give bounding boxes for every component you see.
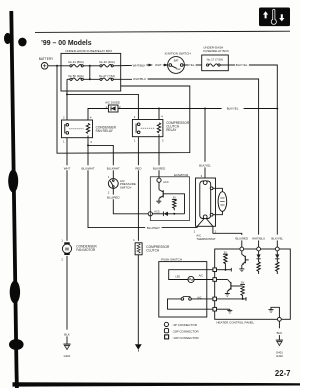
svg-text:WHT/BLU: WHT/BLU — [252, 236, 265, 240]
svg-text:BAT: BAT — [174, 59, 179, 63]
svg-text:: 13P CONNECTOR: : 13P CONNECTOR — [172, 336, 200, 340]
svg-text:BLK: BLK — [277, 331, 283, 335]
A/C diode — [105, 101, 121, 112]
panel interior: LED diode + resistor on WHT/BLU — [257, 251, 261, 274]
svg-text:: 20P CONNECTOR: : 20P CONNECTOR — [172, 329, 200, 333]
wire relay coil pin4 up — [158, 109, 160, 120]
header rule — [35, 31, 290, 32]
svg-text:LED: LED — [175, 275, 180, 278]
svg-text:YEL: YEL — [189, 63, 195, 67]
svg-text:No.42 (40A): No.42 (40A) — [99, 60, 115, 64]
svg-text:A/C: A/C — [199, 273, 203, 277]
wire BLK/YEL from under-dash fuse — [228, 64, 235, 66]
wire WHT/BLK to ignition switch — [113, 64, 132, 66]
wire battery to fuse row1 — [48, 65, 70, 67]
svg-text:’99 – 00 Models: ’99 – 00 Models — [41, 40, 92, 47]
svg-text:BLK/YEL: BLK/YEL — [199, 163, 211, 167]
wire motor to ground — [66, 256, 68, 330]
transistor Q1 ECM — [158, 182, 160, 189]
A/C pressure switch — [108, 170, 136, 194]
ECM/PCM box — [148, 173, 189, 221]
panel interior: switch return mini ground — [217, 309, 233, 313]
svg-text:RELAY: RELAY — [166, 128, 177, 132]
compressor clutch relay — [132, 115, 190, 143]
svg-text:FAN MOTOR: FAN MOTOR — [76, 248, 96, 252]
wire fuse50 to condenser fan relay pin2 — [66, 79, 68, 120]
wire BLU/WHT relay pin3 down — [87, 138, 89, 166]
connector legend — [164, 322, 199, 340]
svg-text:BLU/RED: BLU/RED — [236, 236, 249, 240]
panel interior: 5V pullup R1 — [217, 250, 232, 271]
fuse No.42 (40A) — [99, 60, 115, 67]
svg-text:ACS: ACS — [154, 209, 160, 213]
condenser fan motor — [61, 238, 97, 261]
svg-text:IGNITION SWITCH: IGNITION SWITCH — [165, 52, 191, 56]
panel interior: transistor Q3 — [217, 280, 243, 297]
wire BLK/YEL coil feed line — [118, 108, 222, 110]
binding blob bottom — [9, 339, 24, 350]
wire battery branch down-left loop — [56, 65, 58, 67]
heater control panel — [215, 249, 291, 325]
ground compressor body — [135, 344, 142, 350]
svg-text:: 4P CONNECTOR: : 4P CONNECTOR — [172, 323, 198, 327]
connector arrow — [164, 64, 169, 67]
svg-text:No.41 (80A): No.41 (80A) — [68, 60, 84, 64]
svg-text:CLUTCH: CLUTCH — [146, 248, 160, 252]
svg-text:BLU/WHT: BLU/WHT — [81, 166, 94, 170]
svg-text:BLK/YEL: BLK/YEL — [227, 107, 239, 111]
svg-text:PUSH SWITCH: PUSH SWITCH — [161, 257, 182, 261]
fuse No.41 (80A) — [68, 60, 84, 67]
panel interior: transistor Q2 indicator driver — [239, 251, 248, 272]
push switch A/C contact — [168, 295, 213, 309]
svg-text:BLK/RED: BLK/RED — [153, 166, 165, 170]
svg-text:A/C DIODE: A/C DIODE — [105, 101, 120, 105]
svg-text:UNDER-HOOD FUSE/RELAY BOX: UNDER-HOOD FUSE/RELAY BOX — [65, 49, 112, 53]
svg-text:WHT: WHT — [155, 63, 162, 67]
node dot at thermostat feed — [204, 108, 206, 110]
svg-text:G402: G402 — [276, 354, 283, 358]
push switch bulb circuit — [169, 270, 213, 283]
binding hole blob top pair — [4, 33, 11, 44]
wire YEL — [183, 64, 189, 66]
connector circle panel bottom — [278, 317, 282, 321]
under-hood fuse/relay box — [61, 49, 121, 91]
node junction x66.5 branch — [66, 93, 68, 95]
terminal ACS — [148, 212, 152, 216]
connector arrow — [148, 64, 153, 67]
ground ECM emitter — [156, 200, 161, 202]
wire WHT fan feed — [66, 138, 68, 166]
thermostat feed BLK/YEL — [204, 109, 206, 162]
wire branch to pressure switch — [88, 145, 113, 165]
wire thermostat pin2 to BLU/RED column — [213, 226, 242, 235]
diode ACS — [152, 213, 163, 215]
svg-text:FAN RELAY: FAN RELAY — [96, 129, 114, 133]
wire branch to compressor clutch relay pin2 — [67, 94, 138, 119]
node junction fuse row2 — [89, 78, 91, 80]
fuse No.17 (7.5A) — [207, 64, 209, 66]
legs to pins — [197, 219, 204, 227]
wire RED compressor clutch feed — [137, 137, 139, 166]
battery B+ — [39, 57, 54, 69]
ground G201 — [63, 344, 70, 358]
node junction fuse row1 — [89, 65, 91, 67]
svg-text:BLU/RED: BLU/RED — [107, 195, 120, 199]
svg-text:HEATER CONTROL PANEL: HEATER CONTROL PANEL — [216, 321, 254, 325]
svg-text:WHT/BLK: WHT/BLK — [133, 63, 146, 67]
svg-text:M: M — [65, 246, 69, 251]
wire coil bottom pin3 — [87, 136, 89, 138]
svg-text:ACC: ACC — [163, 180, 169, 184]
wire clutch to body ground — [137, 255, 139, 344]
compressor clutch coil — [133, 238, 170, 255]
terminal ACC — [157, 178, 161, 182]
svg-text:5V: 5V — [241, 280, 244, 284]
heater/thermometer chapter icon — [259, 8, 290, 27]
binding hole blob middle — [8, 170, 18, 193]
svg-text:RED: RED — [135, 166, 141, 170]
svg-text:BLK/YEL: BLK/YEL — [236, 63, 248, 67]
svg-text:BLU/WHT: BLU/WHT — [147, 226, 160, 230]
base wire — [163, 194, 184, 214]
svg-text:No.47 (7.5A): No.47 (7.5A) — [99, 74, 115, 78]
svg-text:A/C: A/C — [197, 295, 201, 299]
wire BLU/WHT to thermostat pin1 — [88, 170, 145, 227]
wire WHT/BLU across page — [113, 78, 132, 80]
svg-text:BLU/WHT: BLU/WHT — [107, 166, 120, 170]
binding hole blob lower — [10, 281, 20, 304]
connector squares panel left edge — [213, 268, 217, 272]
wire + junction row1 — [83, 65, 100, 67]
wire BLK/RED to ECM ACC — [158, 137, 160, 166]
svg-text:WHT: WHT — [64, 166, 71, 170]
sensing element loop + oval — [210, 187, 213, 190]
wire relay coil pin4 up to diode line — [88, 109, 108, 121]
svg-text:SWITCH: SWITCH — [120, 185, 131, 189]
svg-text:IG2: IG2 — [176, 67, 181, 71]
connector circles panel top — [240, 247, 244, 251]
ignition switch — [165, 52, 191, 74]
A/C thermostat — [194, 178, 227, 241]
svg-text:THERMOSTAT: THERMOSTAT — [196, 237, 216, 241]
panel interior: exit hook + mini ground — [269, 307, 280, 317]
svg-text:No.17 (7.5A): No.17 (7.5A) — [207, 58, 223, 62]
ground G401 G402 — [276, 340, 283, 358]
wire BLU/RED pressure sw to ECM ACS — [112, 188, 114, 194]
svg-text:FUSE/RELAY BOX: FUSE/RELAY BOX — [203, 49, 229, 53]
svg-text:G201: G201 — [64, 354, 71, 358]
bottom page edge band — [13, 382, 301, 386]
panel interior: LED diode + resistor on BLK/YEL — [275, 251, 279, 274]
fuse No.47 (7.5A) — [99, 74, 115, 81]
svg-text:BATTERY: BATTERY — [39, 57, 54, 61]
node dot at compressor relay coil feed — [158, 108, 160, 110]
page binding edge line — [11, 11, 17, 388]
svg-text:22-7: 22-7 — [275, 369, 291, 378]
node junction pin3 branch — [87, 144, 89, 146]
node dot at BLK/YEL main — [276, 108, 278, 110]
svg-text:No.50 (20A): No.50 (20A) — [68, 74, 84, 78]
fuse row2: junction feed — [89, 66, 91, 80]
svg-text:BLK: BLK — [64, 332, 70, 336]
wire BLK/YEL column — [276, 109, 278, 235]
push switch box — [159, 257, 207, 317]
wire BLK to G401/G402 — [278, 321, 280, 328]
panel interior: 5V pullup R4 — [217, 280, 247, 300]
svg-text:WHT/BLU: WHT/BLU — [133, 77, 146, 81]
svg-text:ECM/PCM: ECM/PCM — [174, 173, 189, 177]
fuse No.50 (20A) — [67, 74, 100, 81]
condenser fan relay — [62, 115, 117, 144]
under-dash fuse/relay box — [202, 45, 229, 70]
svg-text:BLK/YEL: BLK/YEL — [271, 236, 283, 240]
